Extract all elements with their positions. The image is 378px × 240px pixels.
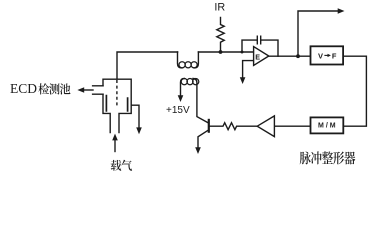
- svg-text:IR: IR: [214, 2, 225, 14]
- svg-text:+15V: +15V: [166, 105, 190, 116]
- svg-text:M / M: M / M: [318, 123, 336, 130]
- svg-text:E: E: [255, 52, 260, 61]
- svg-text:ECD: ECD: [10, 81, 37, 96]
- svg-text:F: F: [332, 52, 337, 61]
- svg-text:V: V: [318, 52, 323, 61]
